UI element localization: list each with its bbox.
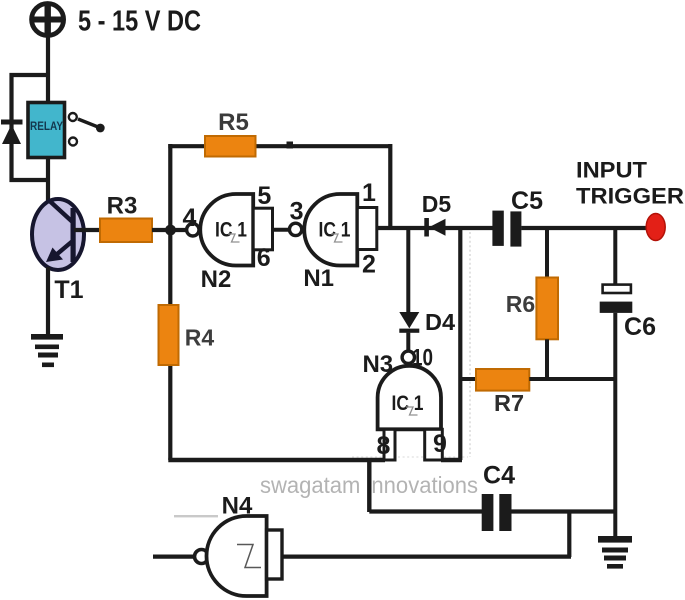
gate N2 body [200, 194, 253, 266]
svg-text:R6: R6 [506, 291, 535, 317]
gate N3 input leg pin9 [425, 429, 443, 460]
gate N1 body [304, 194, 357, 266]
relay coil [28, 103, 65, 158]
svg-text:R5: R5 [218, 109, 249, 136]
diode D5 [424, 218, 445, 237]
svg-text:N3: N3 [362, 351, 393, 378]
wire base to R3 [74, 228, 100, 232]
wire emitter to ground [46, 267, 50, 336]
wire tee down to N4 line [567, 512, 571, 558]
svg-text:10: 10 [412, 345, 433, 372]
resistor R7 [476, 369, 529, 391]
watermark remnant dash [174, 515, 218, 517]
wire supply to relay [46, 35, 50, 103]
gate N1 output bubble pin3 [289, 223, 301, 235]
wire snubber loop top [10, 73, 49, 77]
wire R3 to node [152, 228, 188, 232]
IC1 dotted boundary [469, 232, 471, 457]
capacitor C5 [492, 211, 521, 247]
svg-text:C4: C4 [483, 462, 515, 490]
wire vertical from N1 input node [458, 228, 462, 460]
capacitor C4 [482, 494, 512, 531]
wire top feedback [168, 144, 392, 148]
svg-text:N2: N2 [201, 266, 232, 293]
power supply terminal [32, 4, 64, 36]
svg-text:4: 4 [183, 204, 197, 232]
gate N3 input leg pin8 [384, 429, 395, 460]
junction node [165, 225, 176, 236]
svg-text:5 - 15 V DC: 5 - 15 V DC [78, 6, 201, 38]
junction tick [287, 142, 294, 149]
svg-text:N1: N1 [303, 265, 334, 292]
wire D4 to N3 bubble [406, 333, 410, 352]
wire N4 output stub [153, 554, 195, 558]
wire drop to C4 line [367, 458, 371, 512]
wire R7 left [460, 377, 476, 381]
ground (T1) [31, 334, 63, 367]
svg-text:IC 1: IC 1 [392, 392, 424, 415]
svg-text:R7: R7 [494, 390, 524, 416]
bottom wire [168, 458, 385, 462]
wire relay to T1 collector [46, 157, 50, 205]
svg-text:RELAY: RELAY [30, 121, 63, 133]
wire to C4 [369, 509, 482, 513]
svg-text:3: 3 [290, 198, 304, 226]
svg-text:9: 9 [433, 430, 447, 458]
gate N4 output bubble [195, 550, 209, 564]
wire drop to D4 [406, 228, 410, 313]
wire N4 inputs to tee [282, 554, 571, 558]
wire C4 to ground bus [512, 509, 618, 513]
svg-text:TRIGGER: TRIGGER [576, 184, 684, 209]
gate N1 input block pins 1-2 [357, 208, 377, 250]
wire R6 bottom to R7 line [545, 339, 549, 381]
main wire N1 inputs to C5 [377, 226, 493, 230]
svg-text:R3: R3 [107, 193, 138, 220]
resistor R5 [205, 136, 256, 157]
diode D4 [399, 312, 419, 333]
relay switch contacts [69, 113, 105, 146]
svg-text:C5: C5 [511, 187, 543, 215]
svg-text:C6: C6 [624, 313, 656, 341]
gate N4 body [207, 516, 267, 596]
wire leg9 to vertical [441, 458, 462, 462]
gate N4 input block [267, 530, 282, 579]
freewheel diode [1, 120, 23, 145]
svg-text:INPUT: INPUT [576, 158, 648, 183]
wire snubber loop bottom [10, 178, 49, 182]
svg-text:R4: R4 [185, 325, 215, 351]
wire N1 output to N2 inputs [273, 228, 291, 232]
main wire C5 to trigger terminal [521, 226, 650, 230]
svg-text:N4: N4 [222, 493, 253, 520]
svg-text:IC 1: IC 1 [319, 219, 351, 242]
resistor R3 [100, 219, 152, 243]
wire drop to R6 [545, 228, 549, 278]
ground (right) [598, 536, 632, 569]
resistor R6 [536, 278, 558, 340]
gate N3 body [378, 366, 441, 430]
svg-text:D5: D5 [422, 191, 452, 217]
capacitor C6 [600, 285, 633, 313]
resistor R4 [159, 305, 179, 365]
gate N2 input block pins 5-6 [253, 208, 272, 250]
input trigger terminal [646, 214, 665, 241]
transistor T1 [32, 199, 84, 270]
wire C6 to ground [613, 313, 617, 537]
svg-text:D4: D4 [425, 309, 455, 335]
svg-text:2: 2 [362, 251, 376, 279]
wire trigger bus upper [613, 228, 617, 285]
svg-text:5: 5 [257, 182, 271, 210]
wire snubber loop left [9, 73, 13, 182]
svg-text:IC 1: IC 1 [215, 219, 247, 242]
wire left vertical [168, 144, 172, 460]
wire top right vertical [388, 144, 392, 228]
gate N3 output bubble pin10 [402, 351, 414, 363]
svg-text:T1: T1 [54, 276, 83, 304]
wire R7 right to bus [529, 377, 617, 381]
gate N2 output bubble pin4 [187, 224, 199, 236]
svg-text:1: 1 [362, 179, 376, 207]
svg-text:8: 8 [377, 432, 391, 460]
svg-text:6: 6 [257, 244, 271, 272]
